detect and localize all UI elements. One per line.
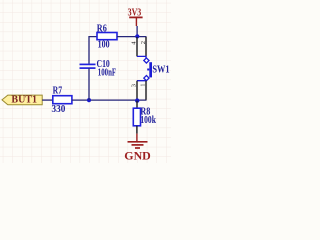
wire C10 bottom lead bbox=[88, 68, 90, 100]
resistor R7 bbox=[52, 86, 72, 115]
wire 3V3 to junction bbox=[136, 26, 138, 37]
resistor R8 bbox=[133, 106, 156, 126]
pin 1 bbox=[145, 81, 147, 100]
wire R7 to switch node (bottom rail) bbox=[72, 99, 147, 101]
resistor R6 bbox=[97, 23, 117, 50]
bottom pin-pair connector bbox=[137, 79, 146, 81]
power port 3V3 bbox=[128, 8, 143, 26]
svg-text:100: 100 bbox=[98, 40, 110, 51]
node junction at C10 bottom bbox=[87, 98, 91, 102]
top contact bbox=[144, 58, 149, 63]
svg-text:330: 330 bbox=[52, 104, 66, 115]
svg-text:3: 3 bbox=[131, 84, 138, 87]
capacitor C10 bbox=[80, 59, 117, 78]
junction at bottom node bbox=[135, 98, 139, 102]
wire C10 top lead from R6 corner bbox=[89, 37, 97, 64]
svg-text:100nF: 100nF bbox=[98, 67, 116, 78]
svg-text:1: 1 bbox=[140, 83, 147, 86]
junction at switch top node bbox=[135, 34, 139, 38]
button bar bbox=[149, 62, 152, 77]
svg-text:100k: 100k bbox=[140, 115, 156, 126]
pin 4 bbox=[136, 37, 138, 56]
wire port to R7 bbox=[42, 99, 53, 101]
port BUT1 bbox=[2, 95, 42, 106]
svg-text:GND: GND bbox=[124, 148, 151, 162]
svg-text:BUT1: BUT1 bbox=[11, 95, 37, 106]
bottom contact bbox=[144, 76, 149, 81]
svg-text:R6: R6 bbox=[97, 23, 107, 34]
wire R8 to GND bbox=[136, 126, 138, 134]
switch SW1 bbox=[131, 37, 170, 100]
wire R6 to switch top node bbox=[117, 36, 147, 38]
pin 2 bbox=[145, 37, 147, 56]
ground GND bbox=[124, 134, 151, 163]
top pin-pair connector bbox=[137, 56, 146, 58]
svg-text:SW1: SW1 bbox=[152, 65, 169, 76]
svg-text:R7: R7 bbox=[53, 86, 63, 97]
pin 3 bbox=[136, 81, 138, 100]
wire node to R8 bbox=[136, 101, 138, 109]
svg-text:2: 2 bbox=[140, 41, 147, 44]
